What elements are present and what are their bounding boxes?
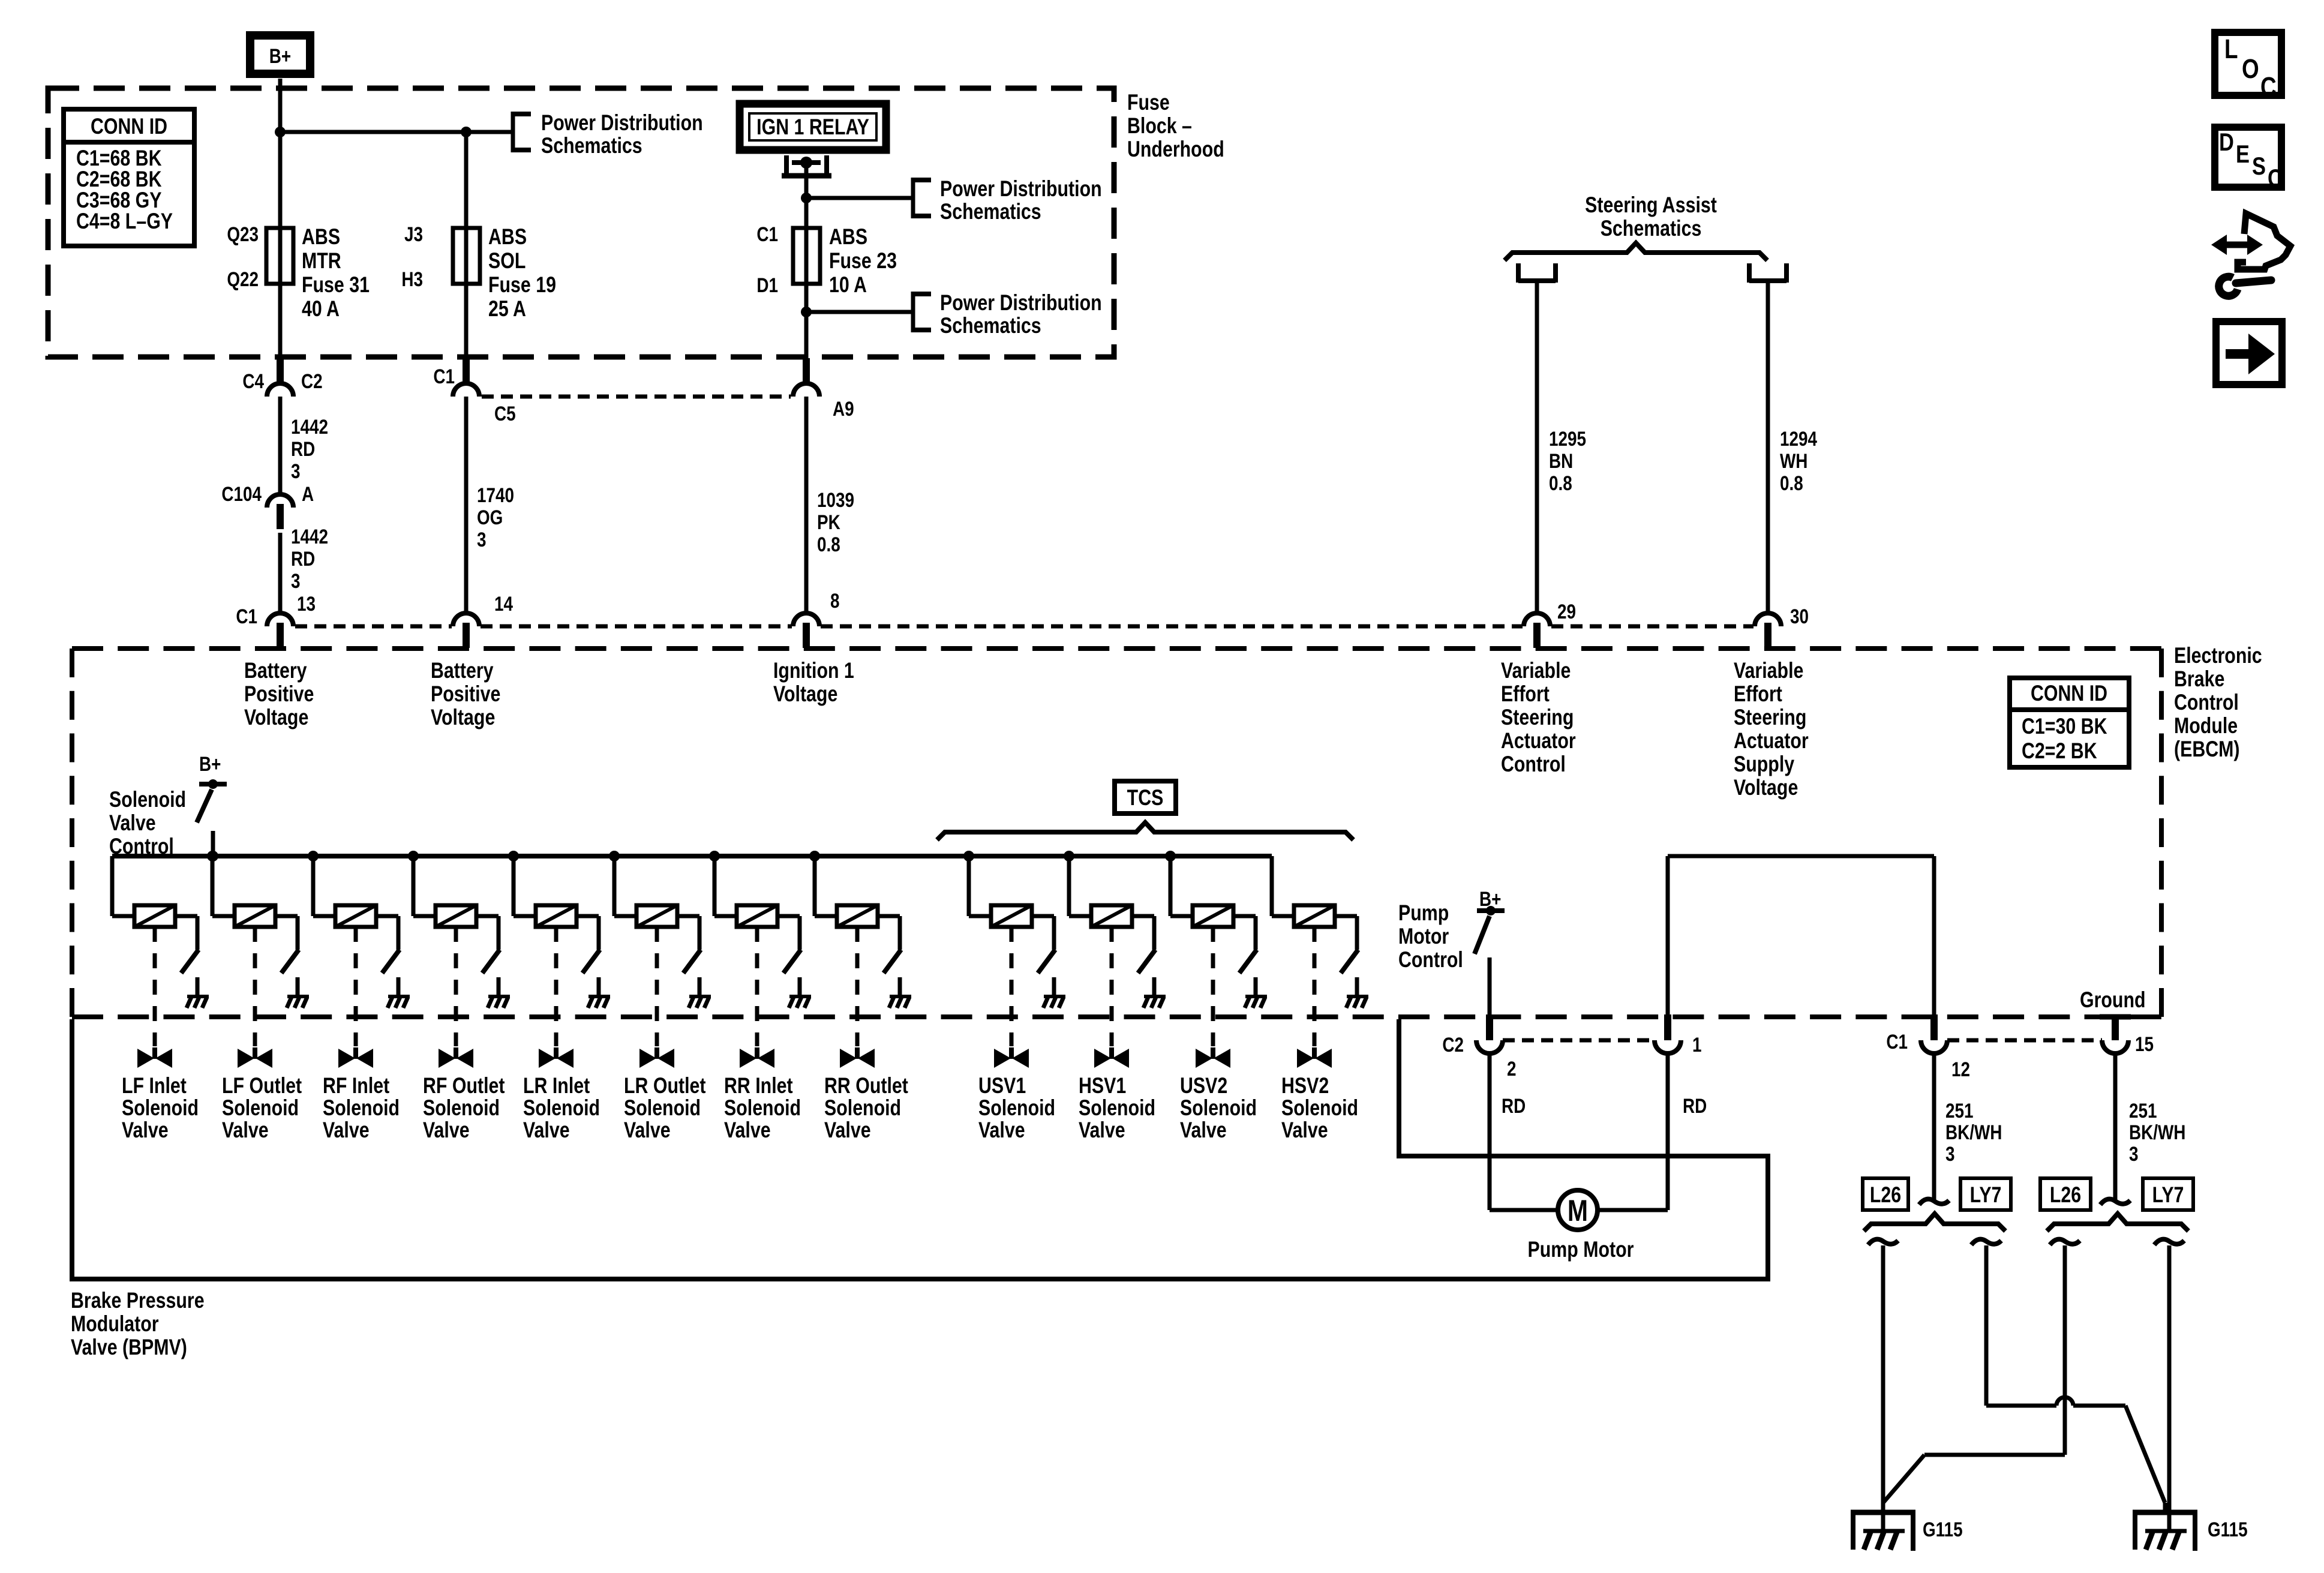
svg-text:RR Outlet: RR Outlet bbox=[824, 1073, 908, 1098]
svg-text:G115: G115 bbox=[1923, 1518, 1963, 1541]
svg-text:8: 8 bbox=[830, 589, 840, 612]
svg-text:C1: C1 bbox=[756, 223, 778, 245]
svg-text:LY7: LY7 bbox=[1970, 1182, 2002, 1208]
svg-text:G115: G115 bbox=[2208, 1518, 2248, 1541]
svg-text:MTR: MTR bbox=[302, 248, 341, 274]
svg-text:Voltage: Voltage bbox=[431, 705, 495, 730]
svg-text:3: 3 bbox=[2129, 1142, 2139, 1165]
svg-text:13: 13 bbox=[297, 592, 316, 615]
svg-text:Solenoid: Solenoid bbox=[824, 1095, 901, 1121]
svg-text:C4=8 L–GY: C4=8 L–GY bbox=[76, 209, 173, 234]
svg-text:RR Inlet: RR Inlet bbox=[724, 1073, 793, 1098]
svg-text:LY7: LY7 bbox=[2152, 1182, 2184, 1208]
svg-text:Solenoid: Solenoid bbox=[122, 1095, 199, 1121]
svg-text:A9: A9 bbox=[833, 397, 854, 420]
svg-text:Effort: Effort bbox=[1734, 682, 1782, 707]
svg-text:Battery: Battery bbox=[244, 658, 307, 683]
svg-text:0.8: 0.8 bbox=[1780, 472, 1803, 494]
svg-text:Effort: Effort bbox=[1501, 682, 1550, 707]
svg-text:A: A bbox=[302, 482, 314, 505]
svg-text:Fuse 31: Fuse 31 bbox=[302, 272, 370, 298]
svg-text:3: 3 bbox=[1945, 1142, 1955, 1165]
svg-text:C1: C1 bbox=[236, 605, 257, 628]
svg-text:Valve: Valve bbox=[1180, 1118, 1227, 1143]
svg-text:Q23: Q23 bbox=[227, 223, 259, 245]
svg-text:BN: BN bbox=[1549, 449, 1573, 472]
svg-text:Q22: Q22 bbox=[227, 268, 259, 290]
svg-text:1039: 1039 bbox=[817, 488, 854, 511]
svg-text:Valve: Valve bbox=[323, 1118, 370, 1143]
svg-text:Solenoid: Solenoid bbox=[1281, 1095, 1358, 1121]
svg-text:3: 3 bbox=[291, 569, 301, 592]
svg-text:Control: Control bbox=[2174, 690, 2239, 715]
svg-text:Valve: Valve bbox=[222, 1118, 269, 1143]
svg-text:Solenoid: Solenoid bbox=[423, 1095, 500, 1121]
svg-text:Schematics: Schematics bbox=[940, 313, 1041, 338]
svg-text:Positive: Positive bbox=[244, 682, 314, 707]
svg-text:C1: C1 bbox=[433, 365, 455, 388]
svg-text:Motor: Motor bbox=[1398, 924, 1449, 949]
svg-text:LR Outlet: LR Outlet bbox=[624, 1073, 705, 1098]
svg-text:ABS: ABS bbox=[488, 224, 527, 250]
svg-text:Schematics: Schematics bbox=[1601, 216, 1702, 241]
svg-text:Positive: Positive bbox=[431, 682, 500, 707]
svg-text:Schematics: Schematics bbox=[940, 199, 1041, 224]
svg-text:1740: 1740 bbox=[477, 484, 514, 506]
svg-text:Underhood: Underhood bbox=[1127, 137, 1224, 162]
svg-text:HSV2: HSV2 bbox=[1281, 1073, 1329, 1098]
svg-text:Solenoid: Solenoid bbox=[724, 1095, 801, 1121]
svg-text:Valve: Valve bbox=[122, 1118, 169, 1143]
svg-text:USV2: USV2 bbox=[1180, 1073, 1227, 1098]
svg-text:RD: RD bbox=[291, 547, 315, 570]
svg-text:Solenoid: Solenoid bbox=[323, 1095, 400, 1121]
svg-text:251: 251 bbox=[1945, 1099, 1974, 1122]
svg-text:PK: PK bbox=[817, 511, 840, 533]
svg-text:B+: B+ bbox=[269, 44, 291, 67]
svg-text:Valve: Valve bbox=[824, 1118, 871, 1143]
svg-text:RD: RD bbox=[1683, 1094, 1707, 1117]
svg-text:25 A: 25 A bbox=[488, 296, 526, 322]
svg-text:Valve: Valve bbox=[523, 1118, 570, 1143]
svg-text:Block –: Block – bbox=[1127, 113, 1192, 139]
svg-text:0.8: 0.8 bbox=[1549, 472, 1572, 494]
svg-text:HSV1: HSV1 bbox=[1079, 1073, 1126, 1098]
svg-text:RD: RD bbox=[291, 437, 315, 460]
svg-text:IGN 1 RELAY: IGN 1 RELAY bbox=[756, 115, 869, 140]
svg-text:Steering: Steering bbox=[1501, 705, 1574, 730]
svg-text:C4: C4 bbox=[242, 370, 264, 392]
svg-text:RF Inlet: RF Inlet bbox=[323, 1073, 389, 1098]
svg-text:Voltage: Voltage bbox=[244, 705, 308, 730]
svg-text:251: 251 bbox=[2129, 1099, 2157, 1122]
svg-text:BK/WH: BK/WH bbox=[1945, 1121, 2002, 1143]
svg-text:Valve: Valve bbox=[624, 1118, 671, 1143]
svg-text:Solenoid: Solenoid bbox=[978, 1095, 1055, 1121]
svg-text:OG: OG bbox=[477, 506, 503, 529]
svg-text:Valve: Valve bbox=[724, 1118, 771, 1143]
svg-text:Pump: Pump bbox=[1398, 900, 1449, 926]
svg-text:M: M bbox=[1568, 1194, 1588, 1227]
svg-text:D: D bbox=[2219, 128, 2234, 157]
svg-text:(EBCM): (EBCM) bbox=[2174, 737, 2240, 762]
svg-text:C2: C2 bbox=[301, 370, 323, 392]
svg-text:BK/WH: BK/WH bbox=[2129, 1121, 2185, 1143]
svg-text:LF Outlet: LF Outlet bbox=[222, 1073, 302, 1098]
svg-text:3: 3 bbox=[477, 528, 487, 551]
svg-text:Variable: Variable bbox=[1501, 658, 1571, 683]
svg-text:1442: 1442 bbox=[291, 525, 328, 548]
svg-text:40 A: 40 A bbox=[302, 296, 340, 322]
svg-text:Valve: Valve bbox=[1281, 1118, 1328, 1143]
svg-text:E: E bbox=[2236, 140, 2250, 169]
svg-text:C104: C104 bbox=[221, 482, 262, 505]
svg-text:Power Distribution: Power Distribution bbox=[940, 290, 1102, 316]
svg-text:RF Outlet: RF Outlet bbox=[423, 1073, 505, 1098]
svg-text:S: S bbox=[2252, 152, 2266, 181]
svg-text:USV1: USV1 bbox=[978, 1073, 1026, 1098]
svg-text:29: 29 bbox=[1557, 600, 1576, 623]
svg-text:Pump Motor: Pump Motor bbox=[1528, 1237, 1634, 1262]
svg-text:C1: C1 bbox=[1886, 1030, 1908, 1053]
svg-text:Electronic: Electronic bbox=[2174, 643, 2262, 668]
svg-text:Supply: Supply bbox=[1734, 752, 1794, 777]
svg-text:Valve (BPMV): Valve (BPMV) bbox=[71, 1335, 187, 1360]
svg-text:Variable: Variable bbox=[1734, 658, 1803, 683]
svg-text:ABS: ABS bbox=[302, 224, 340, 250]
svg-text:Valve: Valve bbox=[978, 1118, 1025, 1143]
svg-text:Steering Assist: Steering Assist bbox=[1585, 193, 1717, 218]
svg-text:Fuse 19: Fuse 19 bbox=[488, 272, 556, 298]
svg-text:B+: B+ bbox=[199, 752, 221, 775]
svg-text:TCS: TCS bbox=[1127, 785, 1164, 810]
svg-text:RD: RD bbox=[1502, 1094, 1526, 1117]
svg-text:Module: Module bbox=[2174, 713, 2238, 739]
svg-text:LR Inlet: LR Inlet bbox=[523, 1073, 590, 1098]
svg-text:SOL: SOL bbox=[488, 248, 526, 274]
svg-text:12: 12 bbox=[1951, 1058, 1970, 1080]
svg-text:Control: Control bbox=[1398, 947, 1463, 972]
svg-text:Solenoid: Solenoid bbox=[222, 1095, 299, 1121]
svg-text:Voltage: Voltage bbox=[1734, 775, 1798, 800]
svg-text:Actuator: Actuator bbox=[1501, 728, 1576, 754]
svg-text:Ignition 1: Ignition 1 bbox=[773, 658, 854, 683]
svg-text:WH: WH bbox=[1780, 449, 1807, 472]
svg-text:Voltage: Voltage bbox=[773, 682, 837, 707]
svg-text:Power Distribution: Power Distribution bbox=[541, 110, 703, 136]
svg-text:Power Distribution: Power Distribution bbox=[940, 176, 1102, 202]
svg-text:1442: 1442 bbox=[291, 415, 328, 438]
svg-text:C2: C2 bbox=[1442, 1033, 1464, 1056]
svg-text:L: L bbox=[2224, 34, 2238, 64]
svg-text:30: 30 bbox=[1790, 605, 1809, 628]
svg-text:C5: C5 bbox=[494, 402, 516, 425]
svg-text:LF Inlet: LF Inlet bbox=[122, 1073, 187, 1098]
svg-text:2: 2 bbox=[1507, 1057, 1517, 1080]
svg-text:C: C bbox=[2268, 164, 2283, 193]
svg-text:14: 14 bbox=[494, 592, 514, 615]
svg-text:10 A: 10 A bbox=[829, 272, 867, 298]
svg-text:Solenoid: Solenoid bbox=[1180, 1095, 1257, 1121]
svg-text:ABS: ABS bbox=[829, 224, 867, 250]
svg-text:C1=30 BK: C1=30 BK bbox=[2022, 714, 2107, 739]
svg-text:Solenoid: Solenoid bbox=[109, 787, 186, 812]
svg-text:15: 15 bbox=[2135, 1032, 2154, 1055]
svg-text:H3: H3 bbox=[401, 268, 423, 290]
svg-text:Fuse: Fuse bbox=[1127, 90, 1170, 115]
svg-text:Control: Control bbox=[1501, 752, 1566, 777]
svg-text:Valve: Valve bbox=[109, 810, 156, 836]
svg-text:Battery: Battery bbox=[431, 658, 494, 683]
svg-text:Valve: Valve bbox=[423, 1118, 470, 1143]
svg-text:J3: J3 bbox=[404, 223, 423, 245]
svg-text:CONN ID: CONN ID bbox=[2031, 681, 2107, 706]
svg-text:CONN ID: CONN ID bbox=[91, 114, 167, 139]
svg-text:L26: L26 bbox=[2050, 1182, 2081, 1208]
svg-text:Actuator: Actuator bbox=[1734, 728, 1809, 754]
svg-text:3: 3 bbox=[291, 460, 301, 482]
svg-text:Valve: Valve bbox=[1079, 1118, 1125, 1143]
svg-text:O: O bbox=[2242, 54, 2259, 84]
svg-text:1: 1 bbox=[1692, 1033, 1702, 1056]
svg-text:Solenoid: Solenoid bbox=[624, 1095, 701, 1121]
svg-text:Ground: Ground bbox=[2080, 987, 2146, 1013]
svg-text:Schematics: Schematics bbox=[541, 133, 642, 158]
svg-text:1294: 1294 bbox=[1780, 427, 1818, 450]
svg-text:1295: 1295 bbox=[1549, 427, 1586, 450]
svg-text:L26: L26 bbox=[1870, 1182, 1901, 1208]
svg-text:D1: D1 bbox=[756, 274, 778, 296]
svg-text:Brake Pressure: Brake Pressure bbox=[71, 1288, 205, 1313]
svg-text:Fuse 23: Fuse 23 bbox=[829, 248, 897, 274]
svg-text:C2=2 BK: C2=2 BK bbox=[2022, 739, 2097, 764]
svg-text:Steering: Steering bbox=[1734, 705, 1806, 730]
svg-text:Solenoid: Solenoid bbox=[1079, 1095, 1155, 1121]
svg-text:Modulator: Modulator bbox=[71, 1311, 159, 1337]
svg-text:Brake: Brake bbox=[2174, 667, 2224, 692]
svg-text:0.8: 0.8 bbox=[817, 533, 840, 556]
svg-text:C: C bbox=[2260, 72, 2277, 102]
svg-text:Solenoid: Solenoid bbox=[523, 1095, 600, 1121]
